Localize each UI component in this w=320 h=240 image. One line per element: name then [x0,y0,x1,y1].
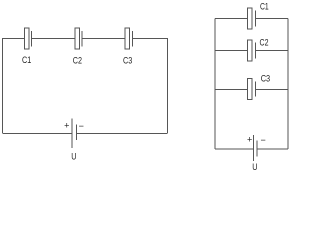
wire: left circuit top segment from top-left corner to C1 [3,39,25,134]
wire: between C1 and C2 [32,38,75,40]
capacitor C2 (parallel circuit): box plate [248,40,253,61]
svg-text:C1: C1 [260,1,269,11]
svg-text:U: U [252,161,257,172]
svg-text:+: + [247,135,252,145]
battery U (series circuit): positive long plate [71,119,73,149]
wire: parallel circuit left rail [214,19,216,149]
wire: third rung left segment to C3 [215,88,248,90]
wire: left circuit bottom left segment to battery [3,132,73,134]
capacitor C2 (parallel circuit): line plate [254,42,256,58]
wire: second rung right segment [255,49,288,51]
capacitor C2 (series circuit): box plate [75,28,80,49]
capacitor C1 (parallel circuit): line plate [254,11,256,27]
battery U (parallel circuit): positive long plate [252,135,254,161]
svg-text:C3: C3 [123,54,132,65]
svg-text:+: + [64,121,69,131]
capacitor C1 (series circuit): box plate [25,28,30,49]
capacitor C1 (parallel circuit): box plate [248,8,253,29]
wire: third rung right segment [255,88,288,90]
battery U (parallel circuit): negative short plate [256,141,258,157]
wire: bottom left segment to battery [215,148,254,150]
svg-text:−: − [79,121,84,131]
svg-text:C2: C2 [260,37,269,48]
wire: battery to bottom-right corner [257,148,288,150]
wire: top rung left segment to C1 [215,18,248,20]
svg-text:C3: C3 [261,72,271,83]
wire: second rung left segment to C2 [215,49,248,51]
capacitor C2 (series circuit): line plate [81,31,83,46]
wire: top rung right segment [255,18,288,20]
capacitor C3 (parallel circuit): line plate [254,82,256,97]
battery U (series circuit): negative short plate [76,125,78,141]
svg-text:U: U [71,150,76,161]
wire: battery to bottom-right corner [77,132,168,134]
capacitor C3 (series circuit): box plate [125,28,130,49]
capacitor C1 (series circuit): line plate [31,31,33,46]
wire: between C2 and C3 [82,38,125,40]
wire: C3 to top-right corner down right rail [133,39,168,134]
svg-text:C2: C2 [73,54,82,65]
svg-text:−: − [261,135,266,145]
capacitor C3 (series circuit): line plate [132,31,134,46]
svg-text:C1: C1 [22,54,31,65]
capacitor C3 (parallel circuit): box plate [248,78,253,99]
wire: parallel circuit right rail [287,19,289,149]
